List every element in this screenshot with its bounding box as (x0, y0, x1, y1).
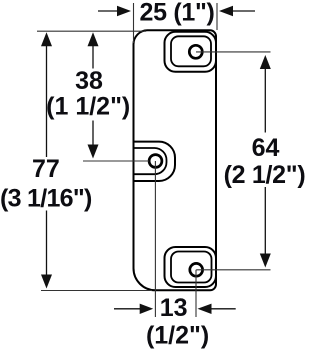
extension line bottom-left horizontal (41, 290, 152, 292)
dim 38 text bg (84, 69, 102, 121)
dim 13 line left tail (114, 308, 141, 310)
middle hole circle (149, 155, 162, 168)
dim 13 line right tail (211, 308, 236, 310)
dim 38 up arrow (88, 32, 99, 46)
svg-text:25 (1"): 25 (1") (139, 0, 214, 26)
leader middle hole horizontal (83, 160, 149, 162)
leader top hole horizontal (196, 51, 271, 53)
dim 64 line (264, 61, 266, 261)
extension line top-left horizontal (37, 30, 146, 32)
svg-text:64: 64 (252, 134, 280, 162)
dim 77 text bg (39, 157, 54, 211)
extension line 25 left vertical (133, 3, 135, 43)
svg-text:77: 77 (32, 155, 60, 183)
dim 38 down arrow (88, 145, 99, 159)
leader bottom hole vertical (195, 270, 197, 317)
dim 77 down arrow (41, 275, 52, 289)
svg-text:13: 13 (160, 294, 188, 322)
svg-text:(3 1/16"): (3 1/16") (0, 184, 92, 212)
svg-text:38: 38 (75, 67, 103, 95)
dim 64 up arrow (260, 55, 271, 69)
dim 64 text bg (258, 133, 273, 188)
dim 25 line right tail (232, 10, 255, 12)
dim 64 down arrow (260, 254, 271, 268)
dim 13 left arrow (140, 304, 154, 314)
middle boss inner (134, 148, 167, 174)
dim 25 right arrow (219, 6, 233, 16)
dim 38 line (92, 40, 94, 151)
bottom hole circle (190, 263, 203, 276)
plate outline (134, 30, 217, 290)
dim 77 up arrow (41, 32, 52, 46)
top recess outer (165, 32, 217, 72)
middle boss outer (134, 142, 176, 181)
bottom recess outer (165, 247, 217, 287)
bottom recess inner (171, 252, 212, 283)
dim 25 line left tail (98, 10, 118, 12)
svg-text:(1 1/2"): (1 1/2") (46, 93, 130, 121)
top hole circle (189, 45, 202, 58)
leader middle hole vertical (154, 161, 156, 317)
dim 25 left arrow (117, 6, 131, 16)
svg-text:(2 1/2"): (2 1/2") (224, 161, 305, 189)
leader bottom hole horizontal (196, 269, 270, 271)
top recess inner (171, 36, 211, 66)
svg-text:(1/2"): (1/2") (146, 322, 209, 350)
extension line 25 right vertical (216, 3, 218, 30)
dim 13 right arrow (198, 304, 212, 314)
dim 77 line (46, 40, 48, 280)
